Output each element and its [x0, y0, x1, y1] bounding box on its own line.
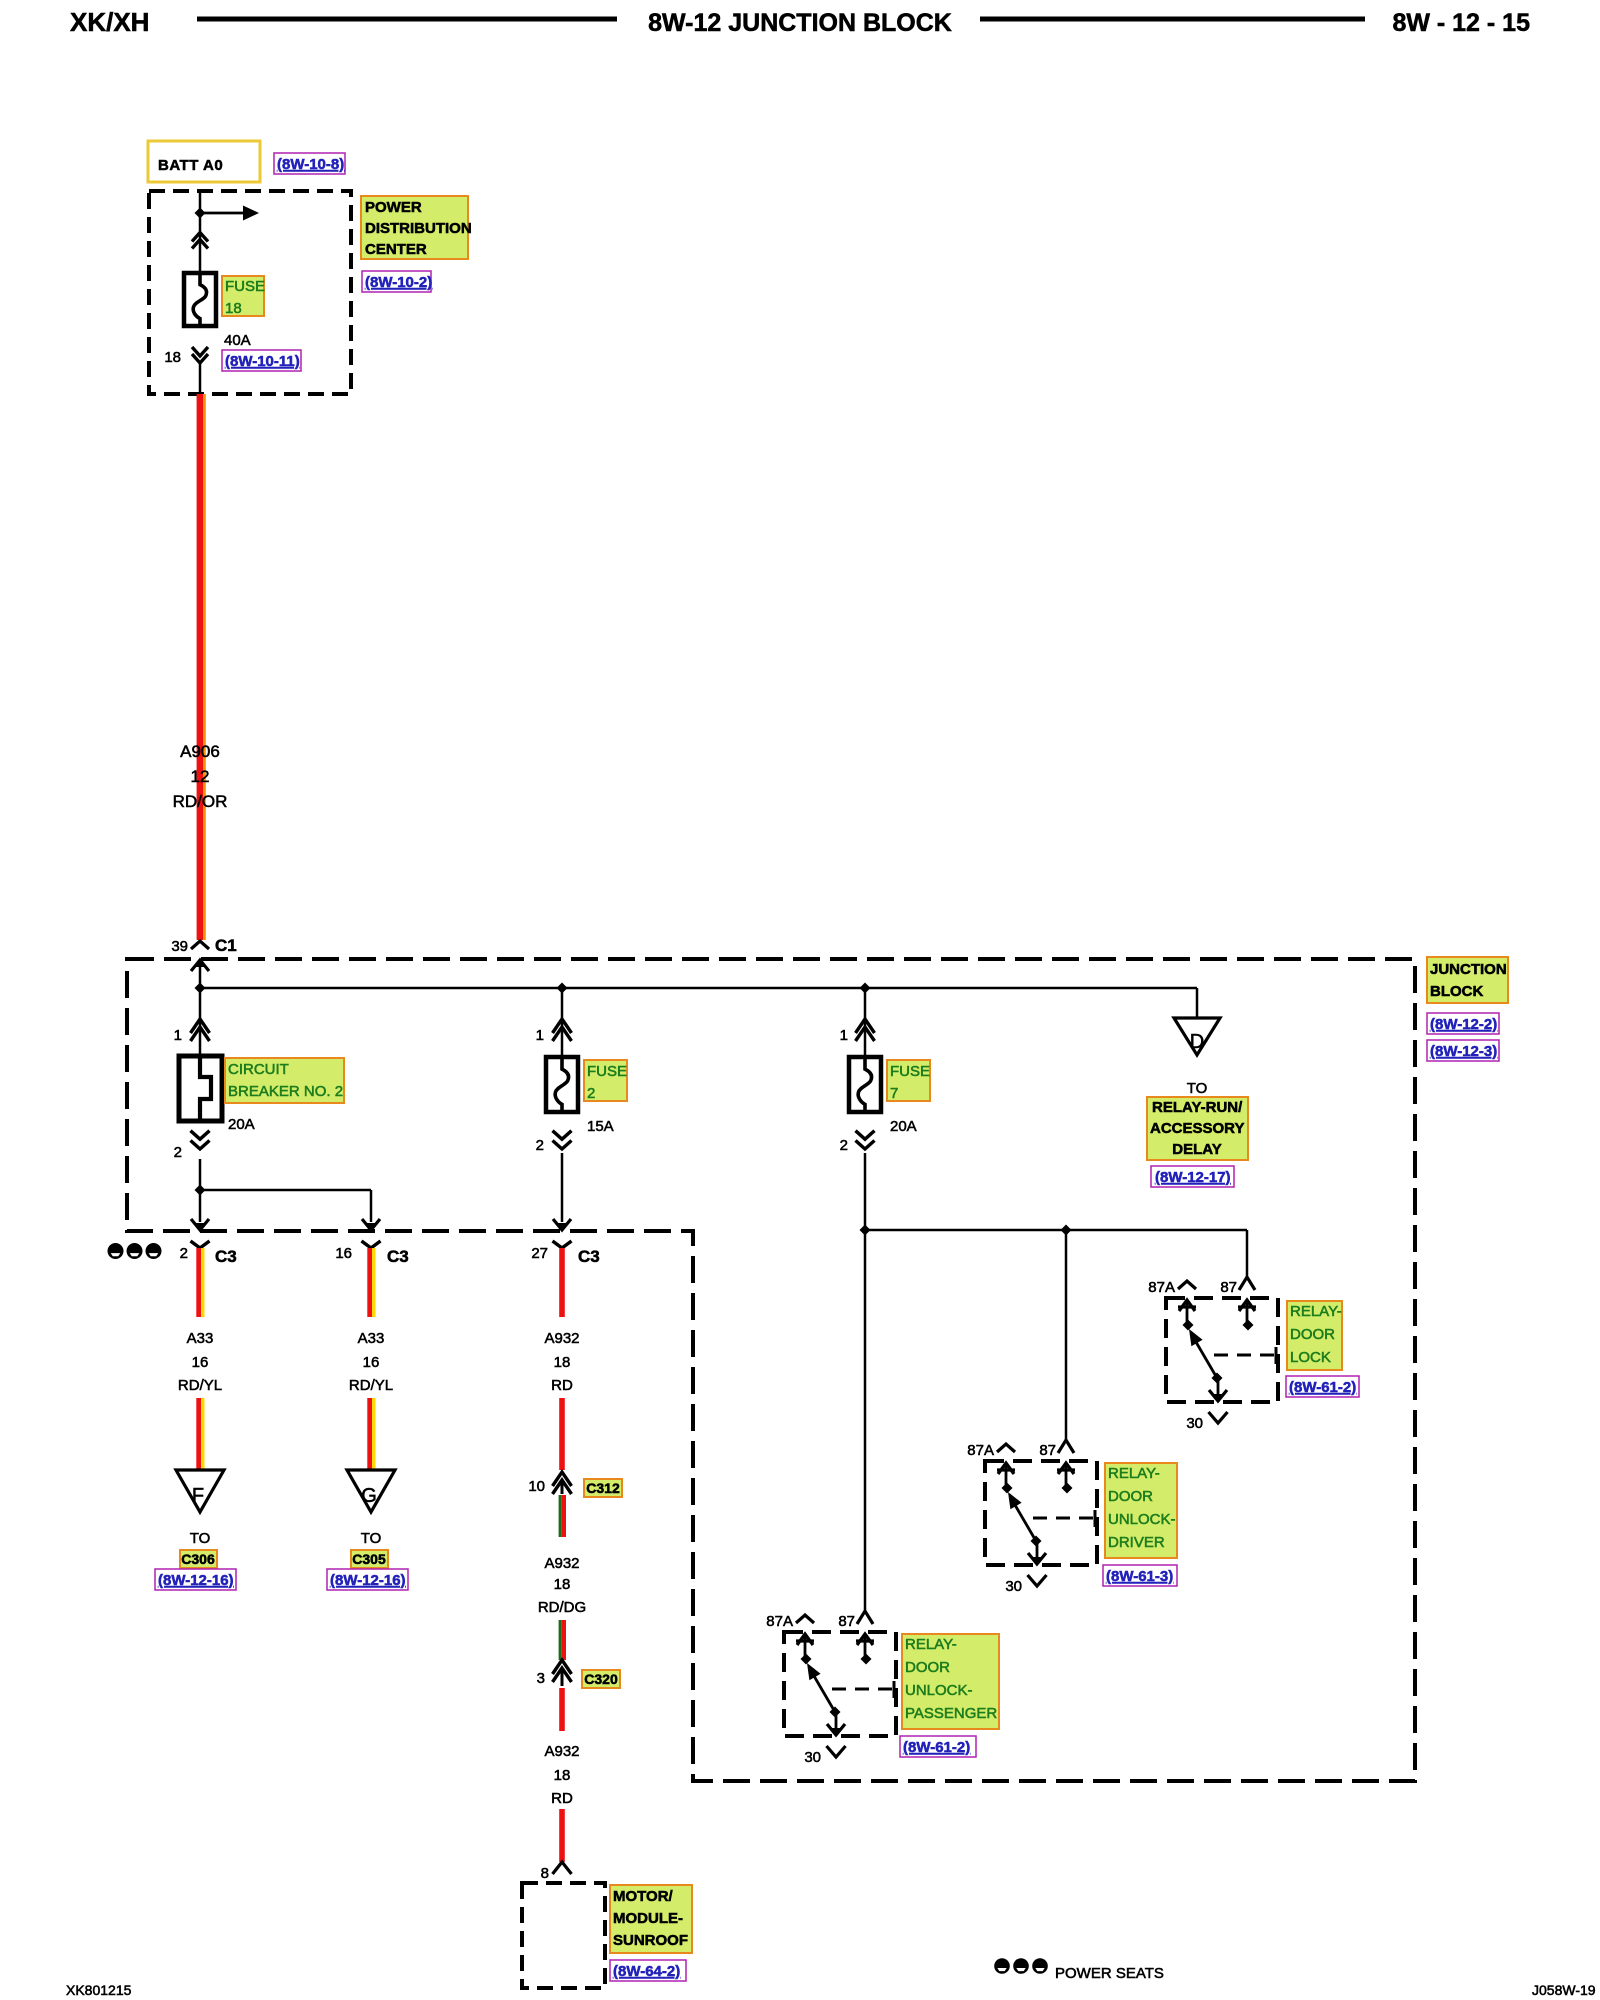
svg-text:16: 16	[192, 1354, 209, 1371]
svg-text:15A: 15A	[587, 1118, 614, 1135]
svg-text:8W-12 JUNCTION BLOCK: 8W-12 JUNCTION BLOCK	[648, 9, 952, 37]
to relay-run/accessory delay text	[1187, 1080, 1208, 1097]
wire A932 RD/DG upper	[560, 1495, 564, 1537]
svg-text:A33: A33	[187, 1330, 214, 1347]
svg-text:(8W-12-2): (8W-12-2)	[1430, 1016, 1497, 1033]
svg-text:RELAY-RUN/: RELAY-RUN/	[1152, 1099, 1243, 1116]
svg-text:(8W-64-2): (8W-64-2)	[613, 1963, 680, 1980]
wire branch to connector 16	[200, 1190, 380, 1230]
power distribution center box	[149, 191, 351, 394]
svg-text:C305: C305	[352, 1551, 386, 1567]
relay door unlock driver label	[1105, 1463, 1177, 1558]
svg-text:1: 1	[174, 1027, 182, 1044]
svg-text:TO: TO	[190, 1530, 211, 1547]
svg-text:SUNROOF: SUNROOF	[613, 1932, 688, 1949]
svg-text:A906: A906	[180, 742, 220, 761]
link 8W-10-2	[362, 271, 432, 292]
svg-text:18: 18	[554, 1767, 571, 1784]
svg-text:BATT A0: BATT A0	[158, 157, 223, 174]
fuse 2 rating 15A	[587, 1118, 614, 1135]
svg-text:(8W-61-2): (8W-61-2)	[903, 1739, 970, 1756]
svg-text:LOCK: LOCK	[1290, 1349, 1331, 1366]
connector chevrons below fuse 18	[192, 347, 208, 363]
svg-text:1: 1	[536, 1027, 544, 1044]
page header rule left	[197, 17, 617, 22]
svg-text:2: 2	[840, 1137, 848, 1154]
svg-text:MODULE-: MODULE-	[613, 1910, 683, 1927]
wire fuse 2 to connector 27	[553, 1153, 571, 1230]
page header rule right	[980, 17, 1365, 22]
svg-text:30: 30	[1186, 1415, 1203, 1432]
svg-text:18: 18	[225, 300, 242, 317]
svg-text:87: 87	[838, 1613, 855, 1630]
wire rail to relay unlock driver	[1065, 1230, 1068, 1440]
junction block outline	[127, 959, 1415, 1781]
svg-text:CENTER: CENTER	[365, 241, 427, 258]
svg-text:3: 3	[537, 1670, 545, 1687]
circuit breaker pin 1	[174, 1019, 210, 1044]
splice F triangle	[176, 1470, 224, 1512]
svg-text:20A: 20A	[890, 1118, 917, 1135]
connector C306 label	[180, 1550, 217, 1568]
wire bus to fuse 7	[864, 988, 867, 1056]
svg-text:F: F	[192, 1485, 204, 1507]
wire A33 RD/YL upper left	[199, 1248, 203, 1317]
svg-text:G: G	[361, 1485, 377, 1507]
svg-text:(8W-12-17): (8W-12-17)	[1155, 1169, 1231, 1186]
svg-text:87A: 87A	[766, 1613, 793, 1630]
wire A932 labels upper	[544, 1330, 579, 1394]
svg-text:RD: RD	[551, 1790, 573, 1807]
fuse 18 rating 40A	[224, 332, 251, 349]
wire A33 RD/YL lower left	[199, 1398, 203, 1471]
connector C320 label	[582, 1670, 620, 1688]
wire A906 labels	[173, 742, 228, 811]
wire A33 labels mid	[349, 1330, 393, 1394]
svg-text:87: 87	[1220, 1279, 1237, 1296]
svg-text:(8W-12-16): (8W-12-16)	[330, 1572, 406, 1589]
svg-text:XK/XH: XK/XH	[70, 7, 149, 37]
circuit breaker rating 20A	[228, 1116, 255, 1133]
sunroof motor pin 8	[541, 1862, 572, 1882]
wire A906 12 RD/OR	[200, 394, 205, 940]
wire A932 RD upper	[559, 1248, 565, 1317]
svg-text:MOTOR/: MOTOR/	[613, 1888, 674, 1905]
svg-text:D: D	[1190, 1031, 1204, 1053]
footer drawing number right	[1532, 1982, 1596, 1998]
svg-text:12: 12	[191, 767, 210, 786]
connector chevrons in PDC	[192, 233, 208, 249]
fuse 7 rating 20A	[890, 1118, 917, 1135]
wire A932 RD to C312	[559, 1398, 565, 1470]
svg-text:(8W-10-2): (8W-10-2)	[365, 274, 432, 291]
fuse 7	[849, 1057, 881, 1112]
svg-text:DOOR: DOOR	[1108, 1488, 1153, 1505]
fuse 2	[546, 1057, 578, 1112]
svg-text:UNLOCK-: UNLOCK-	[1108, 1511, 1176, 1528]
svg-text:C1: C1	[215, 936, 237, 955]
connector C312 pin 10	[528, 1472, 571, 1495]
svg-text:16: 16	[335, 1245, 352, 1262]
svg-text:C3: C3	[215, 1247, 237, 1266]
link 8W-64-2	[610, 1960, 686, 1981]
svg-text:18: 18	[164, 349, 181, 366]
wire A33 labels left	[178, 1330, 222, 1394]
svg-text:7: 7	[890, 1085, 898, 1102]
svg-text:C306: C306	[181, 1551, 215, 1567]
wire C1 into junction block	[191, 960, 209, 988]
relay rail wire	[865, 1229, 1247, 1232]
node bus at fuse 2	[557, 983, 568, 994]
svg-text:RELAY-: RELAY-	[1290, 1303, 1342, 1320]
motor/module-sunroof box	[522, 1883, 605, 1988]
link 8W-12-17	[1151, 1166, 1234, 1187]
wire A932 RD/DG labels	[538, 1555, 586, 1616]
node bus at fuse 7	[860, 983, 871, 994]
svg-text:1: 1	[840, 1027, 848, 1044]
footer power seats symbol	[994, 1958, 1048, 1974]
header model code	[70, 7, 149, 37]
circuit breaker label	[225, 1058, 344, 1103]
svg-text:10: 10	[528, 1478, 545, 1495]
circuit breaker no. 2	[179, 1056, 222, 1121]
wire inside PDC from BATT	[199, 191, 202, 273]
link 8W-61-2 passenger	[900, 1736, 976, 1757]
svg-text:A932: A932	[544, 1555, 579, 1572]
link 8W-12-2	[1427, 1013, 1499, 1034]
svg-text:TO: TO	[361, 1530, 382, 1547]
svg-text:C312: C312	[586, 1480, 620, 1496]
svg-text:FUSE: FUSE	[587, 1063, 627, 1080]
svg-text:A932: A932	[544, 1743, 579, 1760]
svg-text:POWER: POWER	[365, 199, 422, 216]
to C306 text	[190, 1530, 211, 1547]
svg-text:C320: C320	[584, 1671, 618, 1687]
motor/module-sunroof label	[610, 1885, 692, 1953]
splice D triangle	[1174, 1018, 1220, 1055]
relay door lock	[1148, 1277, 1278, 1432]
fuse 7 pin 1	[840, 1019, 875, 1044]
battery feed BATT A0	[148, 141, 260, 182]
link 8W-61-3	[1103, 1565, 1177, 1586]
relay door unlock driver	[967, 1440, 1097, 1595]
svg-text:8: 8	[541, 1865, 549, 1882]
relay door unlock passenger	[766, 1611, 896, 1766]
node PDC feed junction	[195, 208, 206, 219]
svg-text:39: 39	[171, 938, 188, 955]
svg-text:20A: 20A	[228, 1116, 255, 1133]
wire to PDC bottom	[199, 364, 202, 394]
svg-text:2: 2	[587, 1085, 595, 1102]
svg-text:18: 18	[554, 1576, 571, 1593]
svg-text:DRIVER: DRIVER	[1108, 1534, 1165, 1551]
svg-text:(8W-61-3): (8W-61-3)	[1106, 1568, 1173, 1585]
svg-text:FUSE: FUSE	[890, 1063, 930, 1080]
fuse 2 pin 1	[536, 1019, 572, 1044]
svg-text:87: 87	[1039, 1442, 1056, 1459]
power distribution center label	[361, 196, 472, 259]
svg-text:RD/DG: RD/DG	[538, 1599, 586, 1616]
pin 18 label	[164, 349, 181, 366]
svg-text:(8W-10-11): (8W-10-11)	[225, 353, 300, 370]
svg-text:8W - 12 - 15: 8W - 12 - 15	[1392, 9, 1530, 37]
svg-text:DOOR: DOOR	[905, 1659, 950, 1676]
svg-text:(8W-12-3): (8W-12-3)	[1430, 1043, 1497, 1060]
svg-text:RELAY-: RELAY-	[1108, 1465, 1160, 1482]
connector C312 label	[584, 1479, 622, 1497]
connector C1 pin 39	[171, 936, 236, 955]
wire A932 labels lower	[544, 1743, 579, 1807]
svg-text:40A: 40A	[224, 332, 251, 349]
svg-text:DISTRIBUTION: DISTRIBUTION	[365, 220, 472, 237]
svg-text:2: 2	[180, 1245, 188, 1262]
fuse 2 pin 2	[536, 1131, 572, 1154]
relay door unlock passenger label	[902, 1634, 999, 1729]
junction block label	[1427, 957, 1508, 1003]
wire bus to splice D	[1196, 988, 1199, 1018]
svg-text:(8W-10-8): (8W-10-8)	[277, 156, 344, 173]
bus wire inside junction block	[200, 987, 1197, 990]
link 8W-12-3	[1427, 1040, 1499, 1061]
wire rail to relay door lock	[1246, 1230, 1249, 1277]
svg-text:J058W-19: J058W-19	[1532, 1982, 1596, 1998]
relay door lock label	[1287, 1301, 1342, 1370]
svg-text:2: 2	[536, 1137, 544, 1154]
wire branch to right arrow	[200, 206, 259, 221]
svg-text:RD/OR: RD/OR	[173, 792, 228, 811]
svg-text:87A: 87A	[967, 1442, 994, 1459]
wire A932 RD to sunroof	[559, 1809, 565, 1862]
link 8W-10-11	[222, 350, 301, 371]
link 8W-10-8	[274, 153, 345, 174]
svg-text:BLOCK: BLOCK	[1430, 983, 1483, 1000]
node relay rail at driver relay	[1061, 1225, 1072, 1236]
footer power seats text	[1055, 1965, 1164, 1982]
node breaker output junction	[195, 1185, 206, 1196]
svg-text:ACCESSORY: ACCESSORY	[1150, 1120, 1244, 1137]
svg-text:RD/YL: RD/YL	[349, 1377, 393, 1394]
to C305 text	[361, 1530, 382, 1547]
svg-text:CIRCUIT: CIRCUIT	[228, 1061, 289, 1078]
svg-text:A932: A932	[544, 1330, 579, 1347]
svg-text:27: 27	[531, 1245, 548, 1262]
svg-text:87A: 87A	[1148, 1279, 1175, 1296]
splice G triangle	[347, 1470, 395, 1512]
svg-text:XK801215: XK801215	[66, 1982, 132, 1998]
node bus at circuit breaker	[195, 983, 206, 994]
svg-text:JUNCTION: JUNCTION	[1430, 961, 1507, 978]
svg-text:RELAY-: RELAY-	[905, 1636, 957, 1653]
svg-text:(8W-12-16): (8W-12-16)	[158, 1572, 234, 1589]
circuit breaker pin 2	[174, 1131, 210, 1161]
svg-text:FUSE: FUSE	[225, 278, 265, 295]
link 8W-61-2 door lock	[1286, 1376, 1359, 1397]
power seats symbol marks	[108, 1243, 162, 1259]
svg-text:C3: C3	[387, 1247, 409, 1266]
svg-text:C3: C3	[578, 1247, 600, 1266]
link 8W-12-16 left	[155, 1569, 236, 1590]
svg-text:(8W-61-2): (8W-61-2)	[1289, 1379, 1356, 1396]
connector C3 pin 2	[180, 1241, 237, 1266]
link 8W-12-16 mid	[327, 1569, 408, 1590]
wire circuit breaker to node	[199, 1159, 202, 1190]
header title	[648, 9, 952, 37]
wire A33 RD/YL lower mid	[370, 1398, 374, 1471]
svg-text:30: 30	[804, 1749, 821, 1766]
svg-text:A33: A33	[358, 1330, 385, 1347]
wire A932 RD/DG lower	[560, 1620, 564, 1660]
connector C305 label	[351, 1550, 388, 1568]
wire A33 RD/YL upper mid	[370, 1248, 374, 1317]
fuse 7 label	[887, 1060, 930, 1102]
svg-text:DOOR: DOOR	[1290, 1326, 1335, 1343]
wire fuse 7 to relay unlock passenger	[864, 1230, 867, 1610]
wire bus to circuit breaker	[199, 988, 202, 1056]
connector C320 pin 3	[537, 1660, 572, 1687]
svg-text:RD: RD	[551, 1377, 573, 1394]
svg-text:BREAKER NO. 2: BREAKER NO. 2	[228, 1083, 343, 1100]
wire A932 RD mid	[559, 1688, 565, 1731]
svg-text:PASSENGER: PASSENGER	[905, 1705, 997, 1722]
svg-text:16: 16	[363, 1354, 380, 1371]
svg-text:RD/YL: RD/YL	[178, 1377, 222, 1394]
relay-run/accessory delay label	[1147, 1097, 1248, 1160]
svg-text:DELAY: DELAY	[1172, 1141, 1221, 1158]
svg-text:2: 2	[174, 1144, 182, 1161]
wire bus to fuse 2	[561, 988, 564, 1056]
header page number	[1392, 9, 1530, 37]
footer drawing number left	[66, 1982, 132, 1998]
svg-text:UNLOCK-: UNLOCK-	[905, 1682, 973, 1699]
svg-text:30: 30	[1005, 1578, 1022, 1595]
svg-text:POWER SEATS: POWER SEATS	[1055, 1965, 1164, 1982]
svg-text:18: 18	[554, 1354, 571, 1371]
node relay rail at fuse 7	[860, 1225, 871, 1236]
wire fuse 7 down to relay rail	[864, 1153, 867, 1230]
fuse 18 label	[222, 276, 265, 317]
fuse 18	[184, 273, 216, 326]
svg-text:TO: TO	[1187, 1080, 1208, 1097]
connector C3 pin 27	[531, 1241, 599, 1266]
fuse 2 label	[584, 1060, 627, 1102]
wire breaker to connector 2	[191, 1190, 209, 1230]
connector C3 pin 16	[335, 1241, 408, 1266]
fuse 7 pin 2	[840, 1131, 875, 1154]
